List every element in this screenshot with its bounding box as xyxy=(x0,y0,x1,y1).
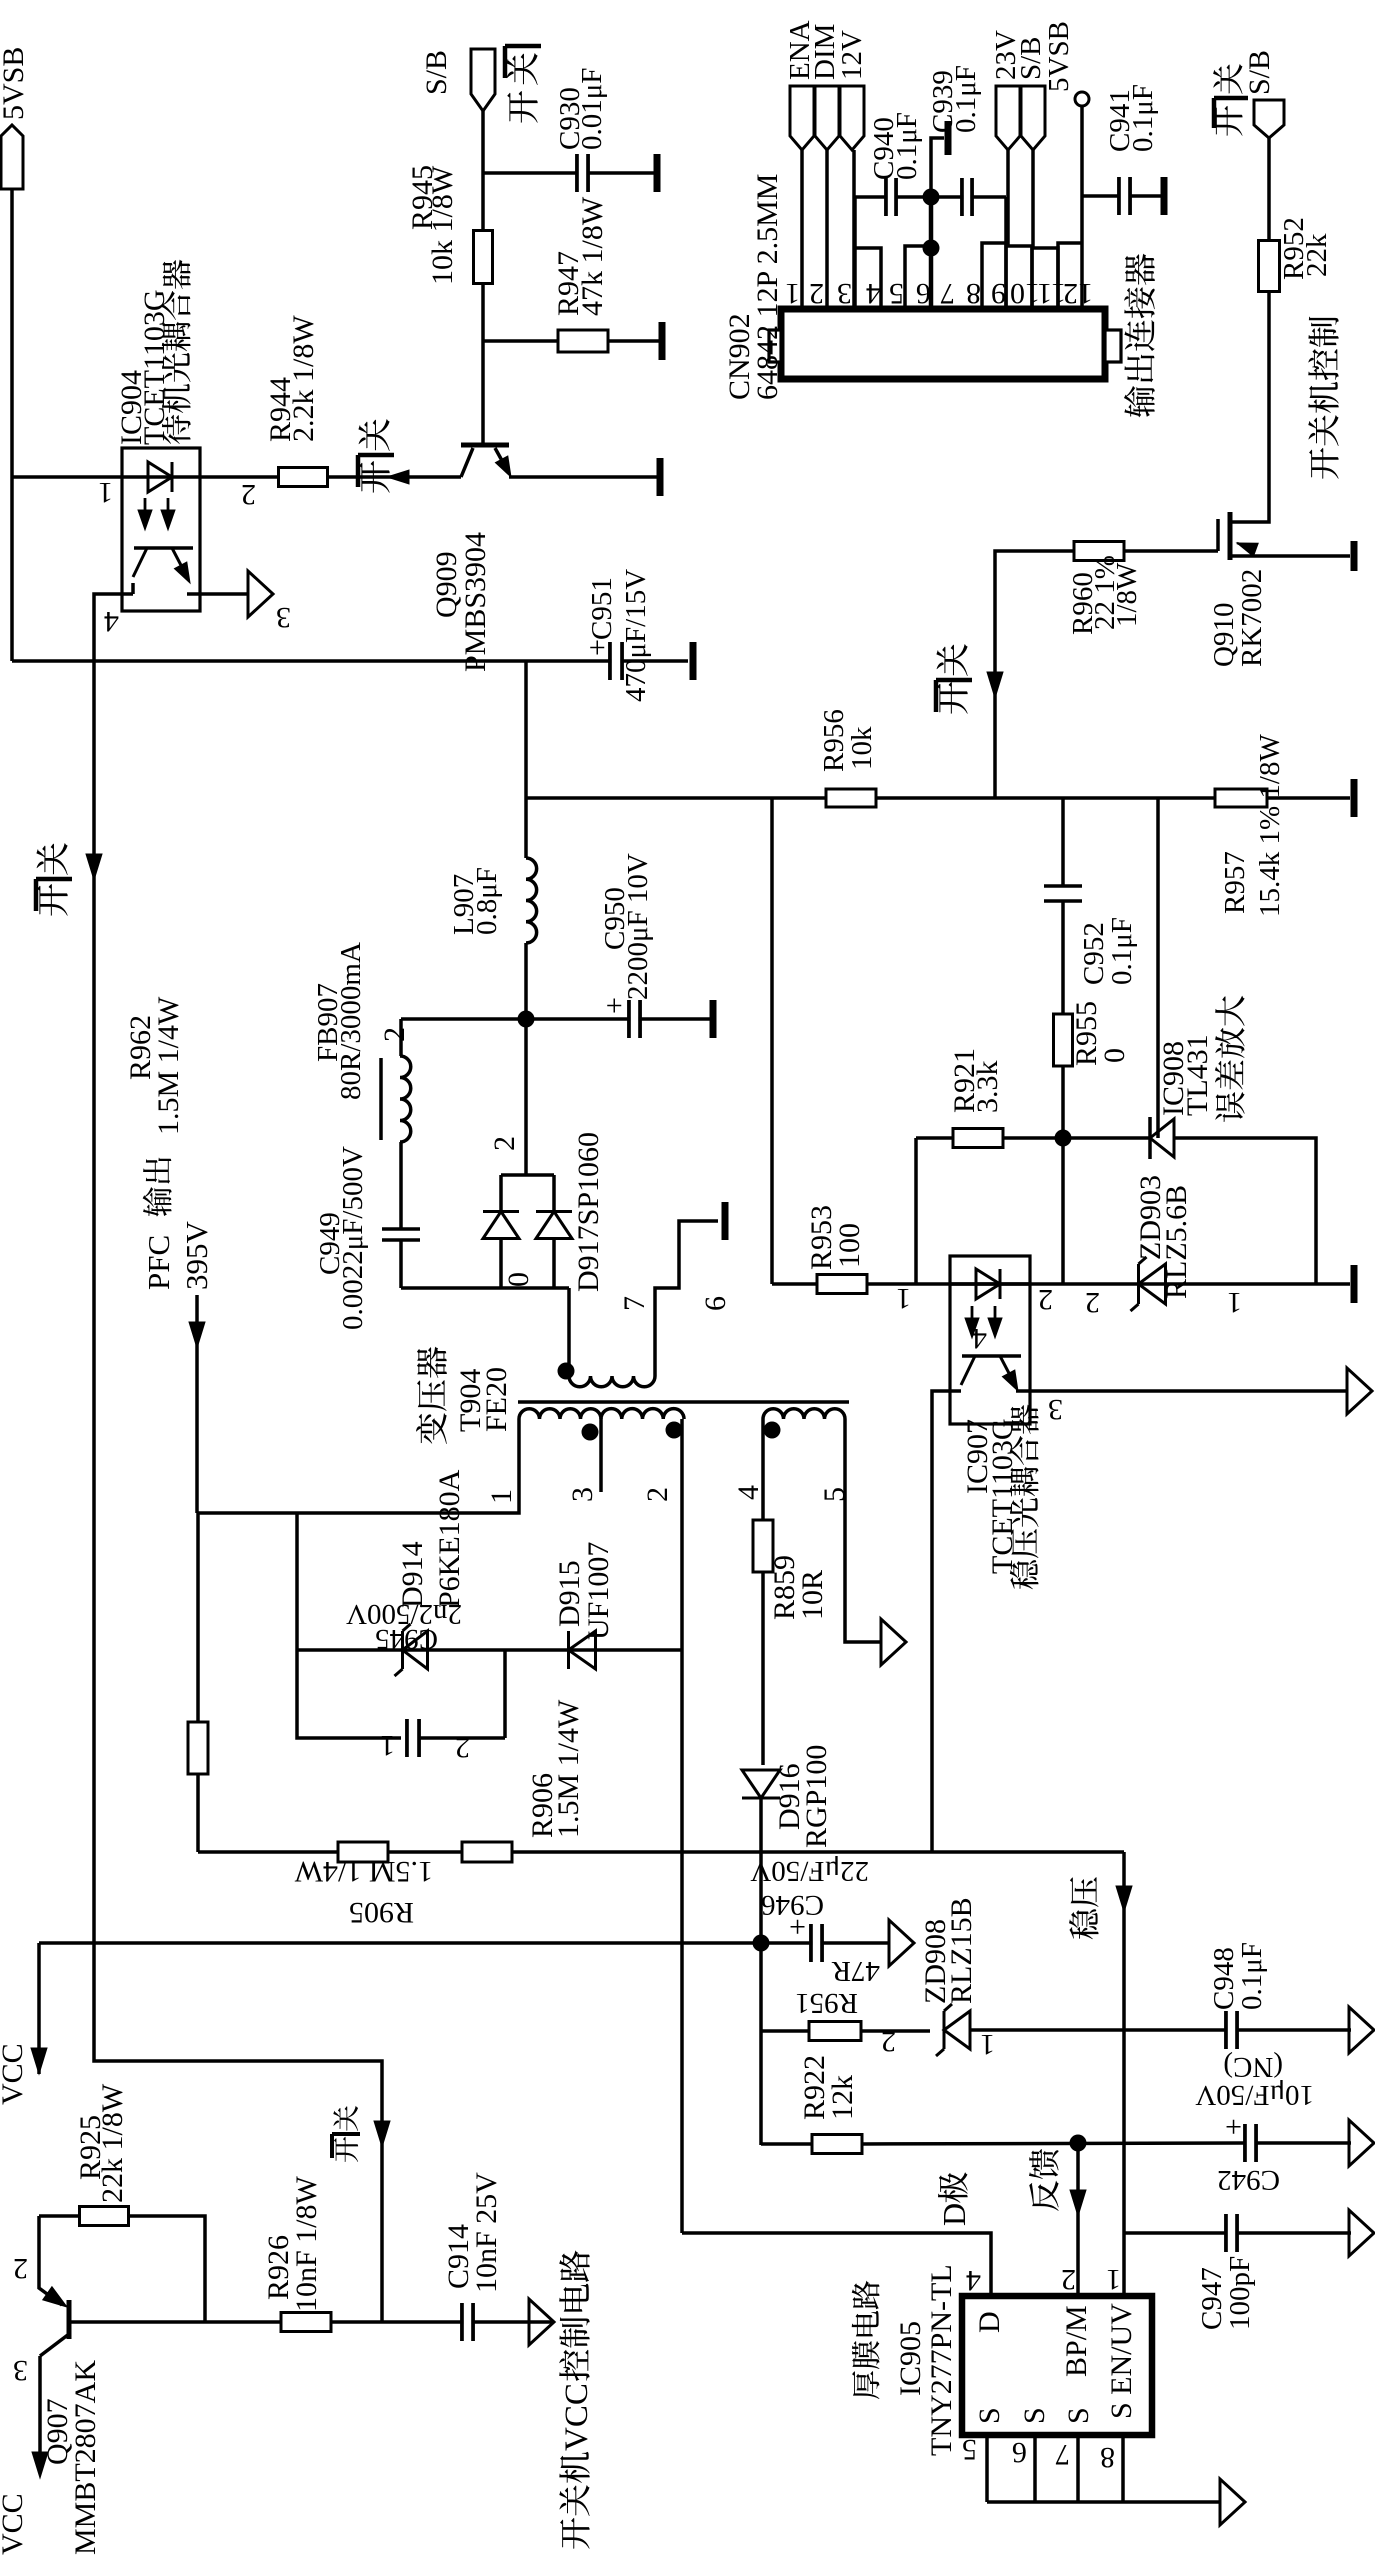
node dot VCC rail xyxy=(753,1935,770,1952)
wire R955 node to rail xyxy=(1061,1138,1065,1284)
wire Q910 drain xyxy=(1230,291,1269,522)
label 稳压 xyxy=(1069,1909,1099,1939)
wire TL431 cathode riser xyxy=(1156,798,1160,1138)
wire IC904 pin4 xyxy=(94,594,133,1943)
svg-text:MMBT2807AK: MMBT2807AK xyxy=(69,2360,102,2555)
svg-text:1.5M 1/4W: 1.5M 1/4W xyxy=(294,1855,433,1888)
ic IC905 TNY277PN-TL box xyxy=(962,2296,1152,2435)
svg-text:VCC: VCC xyxy=(0,2043,29,2105)
diode D914 TVS xyxy=(403,1631,428,1669)
diode D916 xyxy=(742,1770,780,1798)
wire D917 cathode legs xyxy=(499,1175,503,1212)
wire C930 to ground xyxy=(588,171,654,175)
svg-text:TNY277PN-TL: TNY277PN-TL xyxy=(925,2264,958,2456)
svg-text:C951: C951 xyxy=(586,577,618,640)
wire IC904 LED inner xyxy=(122,475,200,479)
transistor Q909 base slant xyxy=(461,448,473,477)
wire output rail to R956 xyxy=(526,796,826,800)
svg-text:1: 1 xyxy=(896,1282,911,1315)
svg-text:2: 2 xyxy=(809,277,824,310)
svg-text:12k: 12k xyxy=(826,2075,859,2120)
pin box CN902 pin10 xyxy=(1006,246,1032,309)
label kaiguan C930 xyxy=(507,91,537,123)
svg-text:C946: C946 xyxy=(761,1889,824,1921)
sheet arrow C948 xyxy=(1349,2007,1374,2053)
wire PFC to R962 xyxy=(196,1513,200,1722)
wire IC905 pin4 D xyxy=(682,2233,991,2296)
svg-text:2: 2 xyxy=(488,1136,521,1151)
net flag 23V xyxy=(996,86,1020,150)
svg-text:395V: 395V xyxy=(179,1221,214,1291)
svg-text:0.1μF: 0.1μF xyxy=(1236,1942,1268,2010)
zener ZD908 xyxy=(944,2011,970,2049)
wire output node row xyxy=(401,1017,716,1021)
wire C942 to arrow xyxy=(1256,2141,1351,2145)
svg-text:3: 3 xyxy=(566,1487,599,1502)
svg-text:22k: 22k xyxy=(1301,233,1333,277)
svg-text:TCET1103G: TCET1103G xyxy=(986,1418,1019,1574)
wire TL431 anode xyxy=(1174,1138,1316,1284)
wire Q909 collector to S/B xyxy=(481,111,485,445)
wire D917 anode rail xyxy=(401,1286,569,1290)
svg-text:1: 1 xyxy=(980,2028,995,2061)
svg-text:RLZ5.6B: RLZ5.6B xyxy=(1160,1185,1193,1299)
label kaiguan S/B xyxy=(1214,106,1243,136)
svg-text:7: 7 xyxy=(940,277,955,310)
wire snubber riser xyxy=(295,1513,299,1650)
svg-text:4: 4 xyxy=(104,605,119,638)
capacitor C941 xyxy=(1117,177,1121,215)
svg-text:15.4k 1% 1/8W: 15.4k 1% 1/8W xyxy=(1254,734,1286,917)
polarity dot T904 primary xyxy=(582,1424,599,1441)
wire T904 pin6 xyxy=(655,1221,718,1376)
svg-text:RK7002: RK7002 xyxy=(1236,569,1268,667)
wire IC907 LED inner xyxy=(950,1282,1030,1286)
capacitor C914 xyxy=(460,2303,464,2341)
svg-text:VCC: VCC xyxy=(0,2493,29,2555)
svg-text:6: 6 xyxy=(1012,2436,1027,2469)
wire R951 to ZD908 xyxy=(861,2029,930,2033)
wire C949 to D917 anode rail xyxy=(399,1240,403,1288)
label 开关机VCC控制电路 xyxy=(560,2518,590,2549)
sheet arrow VCC rail xyxy=(889,1920,914,1966)
wire pin4 to cap line xyxy=(853,197,857,248)
wire IC904 pin2 to R944 xyxy=(200,475,279,479)
wire D916 to VCC rail xyxy=(759,1798,763,1943)
sheet arrow VCC control xyxy=(529,2299,554,2345)
opto IC904 LED xyxy=(148,462,172,492)
wire D917 cathode bar xyxy=(501,1173,554,1177)
label kaiguan R926 xyxy=(334,2137,358,2162)
arrow kaiguan R926 xyxy=(374,2121,390,2147)
ground T904 pin6 xyxy=(722,1202,729,1240)
svg-text:D: D xyxy=(936,2203,972,2226)
svg-text:10k: 10k xyxy=(846,726,878,770)
svg-text:+: + xyxy=(581,639,614,656)
label 输出连接器 xyxy=(1124,386,1155,417)
net flag S/B (Q909) xyxy=(471,49,495,111)
wire D917 cathode riser xyxy=(524,1019,528,1175)
svg-text:2n2/500V: 2n2/500V xyxy=(346,1598,462,1630)
sheet arrow C942 xyxy=(1349,2120,1374,2166)
svg-text:5VSB: 5VSB xyxy=(0,47,30,120)
svg-text:2: 2 xyxy=(881,2025,896,2058)
node dot pin7 xyxy=(923,240,940,257)
wire R947 to ground xyxy=(608,339,659,343)
svg-text:BP/M: BP/M xyxy=(1060,2305,1093,2377)
polarity dot T904 pin4 xyxy=(764,1422,781,1439)
svg-text:+: + xyxy=(1225,2110,1242,2143)
resistor R953 xyxy=(817,1275,867,1294)
svg-text:D917SP1060: D917SP1060 xyxy=(572,1132,605,1292)
svg-text:5VSB: 5VSB xyxy=(1043,21,1075,92)
wire R962 to corner xyxy=(196,1774,200,1852)
svg-text:10: 10 xyxy=(1010,277,1040,310)
wire R922 to C942 xyxy=(862,2143,1245,2144)
svg-text:10k 1/8W: 10k 1/8W xyxy=(426,165,459,285)
label 反馈 xyxy=(1029,2181,1058,2211)
svg-text:7: 7 xyxy=(1055,2438,1070,2471)
capacitor C952 xyxy=(1044,888,1082,900)
ic IC904 box xyxy=(122,448,200,611)
svg-text:0.0022μF/500V: 0.0022μF/500V xyxy=(337,1146,369,1330)
resistor R955 xyxy=(1054,1014,1073,1066)
wire R952 to S/B xyxy=(1267,138,1271,240)
transformer T904 primary winding 3-2 xyxy=(601,1409,684,1419)
ground rail798 xyxy=(1351,779,1358,817)
svg-text:8: 8 xyxy=(1100,2441,1115,2474)
svg-text:5: 5 xyxy=(818,1487,851,1502)
label kaiguan R956 xyxy=(937,682,967,714)
sheet arrow IC907 pin3 xyxy=(1347,1368,1372,1414)
wire Q907 base line xyxy=(69,2320,554,2324)
wire C952 branch xyxy=(1061,798,1065,886)
svg-text:10nF 25V: 10nF 25V xyxy=(470,2172,503,2293)
wire rail1284 xyxy=(772,1282,1350,1286)
wire C945 loop xyxy=(297,1650,401,1738)
wire C930 branch xyxy=(483,171,577,175)
transistor Q909 base bar xyxy=(461,443,509,448)
wire C948 to arrow xyxy=(1237,2028,1351,2032)
svg-text:47R: 47R xyxy=(831,1955,880,1987)
svg-text:PFC: PFC xyxy=(141,1235,176,1290)
capacitor C948 xyxy=(1224,2011,1228,2049)
capacitor C939 xyxy=(960,178,964,216)
capacitor C950 + xyxy=(627,1000,631,1038)
wire C947 to arrow xyxy=(1237,2231,1351,2235)
wire R951 R922 riser xyxy=(759,1943,763,2145)
wire Q910 source xyxy=(1230,554,1350,558)
svg-text:FE20: FE20 xyxy=(480,1367,513,1432)
pin box CN902 pin11 xyxy=(1032,248,1058,309)
svg-text:6: 6 xyxy=(916,277,931,310)
wire R951 line xyxy=(761,2029,808,2033)
svg-text:80R/3000mA: 80R/3000mA xyxy=(335,942,367,1100)
wire ZD908 to C948 xyxy=(970,2028,1226,2032)
net arrow VCC xyxy=(37,1943,41,2074)
diode D917 right half xyxy=(536,1212,572,1239)
svg-text:1.5M 1/4W: 1.5M 1/4W xyxy=(552,1699,585,1838)
connector CN902 body xyxy=(781,309,1105,379)
sheet arrow IC905 source xyxy=(1220,2479,1245,2525)
resistor R944 xyxy=(279,468,328,487)
svg-text:3.3k: 3.3k xyxy=(971,1061,1004,1114)
resistor R945 xyxy=(474,231,493,284)
svg-text:0.1μF: 0.1μF xyxy=(891,112,923,180)
pin box CN902 pin4 xyxy=(855,248,881,309)
svg-text:1/8W: 1/8W xyxy=(1111,562,1143,627)
wire CN902 pin7 bold xyxy=(929,197,934,309)
wire CN902 pin3 xyxy=(852,150,856,309)
wire C941 to ground xyxy=(1130,194,1161,198)
net flag S/B(23V) xyxy=(1021,86,1045,150)
svg-text:12: 12 xyxy=(1063,277,1093,310)
wire IC907 pin3 xyxy=(1016,1389,1348,1393)
wire R960 to gate xyxy=(1124,549,1218,553)
svg-text:2: 2 xyxy=(241,478,256,511)
svg-text:12V: 12V xyxy=(836,30,868,80)
wire CN902 pin1 xyxy=(800,150,804,309)
svg-text:S: S xyxy=(1062,2407,1095,2424)
svg-text:2.2k 1/8W: 2.2k 1/8W xyxy=(287,315,320,442)
wire R925 left xyxy=(39,2214,80,2218)
net flag S/B (Q910) xyxy=(1254,100,1284,138)
svg-text:P6KE180A: P6KE180A xyxy=(433,1469,466,1608)
wire L907 branch xyxy=(524,661,528,858)
svg-text:5: 5 xyxy=(962,2433,977,2466)
resistor R962 xyxy=(188,1722,208,1774)
svg-text:S/B: S/B xyxy=(1243,50,1276,95)
svg-text:2: 2 xyxy=(641,1487,674,1502)
transistor Q907 emitter arrow xyxy=(43,2287,67,2307)
ground CN902 xyxy=(945,121,952,155)
node dot BP xyxy=(1070,2135,1087,2152)
svg-text:D914: D914 xyxy=(396,1541,429,1608)
wire C941 line xyxy=(1082,194,1119,198)
ic TL431 IC908 xyxy=(1148,1117,1152,1159)
transformer T904 primary winding 1-3 xyxy=(519,1409,601,1419)
svg-text:1.5M 1/4W: 1.5M 1/4W xyxy=(152,996,185,1135)
wire cap line C940 C939 xyxy=(855,195,886,199)
arrow Q910 source xyxy=(1237,543,1253,549)
label 误差放大 xyxy=(1215,1092,1244,1122)
ground rail1284 xyxy=(1351,1265,1358,1303)
arrow wenya xyxy=(1116,1886,1132,1912)
wire D917 anode legs xyxy=(499,1239,503,1288)
svg-text:2: 2 xyxy=(1038,1283,1053,1316)
transistor Q909 emitter slant xyxy=(495,448,505,466)
resistor R960 xyxy=(1074,542,1124,561)
opto IC904 transistor xyxy=(134,546,193,550)
svg-text:R951: R951 xyxy=(795,1987,858,2019)
wire R947 branch xyxy=(483,339,558,343)
resistor R951 xyxy=(809,2022,861,2041)
label 变压器 xyxy=(416,1413,447,1444)
ground C941 xyxy=(1161,177,1168,215)
pin box CN902 pin5-6 xyxy=(905,246,931,309)
resistor R859 xyxy=(753,1520,773,1572)
svg-text:S: S xyxy=(973,2407,1006,2424)
net flag 5VSB xyxy=(1,125,23,189)
net flag DIM xyxy=(815,86,839,150)
resistor R925 xyxy=(80,2207,129,2226)
svg-text:6: 6 xyxy=(699,1296,732,1311)
svg-text:3: 3 xyxy=(276,601,291,634)
sheet arrow pin5 xyxy=(881,1619,906,1665)
svg-text:4: 4 xyxy=(966,2264,981,2297)
wire T904 pin7 riser xyxy=(567,1288,571,1376)
wire 5VSB down to C951 rail xyxy=(10,189,14,661)
svg-text:47k 1/8W: 47k 1/8W xyxy=(576,196,609,316)
arrow feedback xyxy=(1070,2190,1086,2216)
svg-text:10R: 10R xyxy=(796,1570,829,1620)
node 5VSB circle xyxy=(1075,92,1089,106)
svg-text:22μF/50V: 22μF/50V xyxy=(750,1855,869,1887)
resistor R905 xyxy=(338,1842,388,1862)
zener ZD903 xyxy=(1139,1264,1166,1304)
svg-text:3: 3 xyxy=(13,2354,28,2387)
wire IC905 pin1 EN xyxy=(1122,1852,1126,2296)
svg-text:(NC): (NC) xyxy=(1223,2051,1283,2083)
svg-text:2: 2 xyxy=(1085,1286,1100,1319)
capacitor C947 xyxy=(1224,2214,1228,2252)
wire T904 pin5 xyxy=(845,1419,881,1642)
connector CN902 right tab xyxy=(1105,330,1121,362)
wire R957 to ground xyxy=(1267,796,1350,800)
svg-text:UF1007: UF1007 xyxy=(582,1542,615,1640)
opto IC907 light arrows xyxy=(965,1318,979,1338)
node dot cap line xyxy=(923,189,940,206)
wire IC905 source pins xyxy=(985,2435,989,2502)
svg-text:3: 3 xyxy=(837,277,852,310)
resistor R926 xyxy=(281,2313,331,2332)
svg-text:1: 1 xyxy=(485,1489,518,1504)
resistor R921 xyxy=(953,1129,1003,1148)
wire Q909 emitter xyxy=(509,475,657,479)
ferrite bead FB907 xyxy=(400,1056,411,1142)
net flag 12V xyxy=(840,86,864,150)
svg-text:10nF 1/8W: 10nF 1/8W xyxy=(290,2175,323,2312)
svg-text:IC905: IC905 xyxy=(894,2321,927,2396)
wire 5VSB to pin12 xyxy=(1080,106,1084,309)
svg-text:1: 1 xyxy=(1227,1286,1242,1319)
wire FB907 branch xyxy=(399,1019,403,1056)
svg-text:64842 12P 2.5MM: 64842 12P 2.5MM xyxy=(751,174,784,400)
net flag ENA xyxy=(790,86,814,150)
wire C951 rail (to ground) xyxy=(12,659,688,663)
wire T904 pin4 to R859 xyxy=(761,1419,765,1522)
svg-text:9: 9 xyxy=(991,277,1006,310)
mosfet Q910 gate bar xyxy=(1216,519,1220,551)
wire L907 to node xyxy=(524,943,528,1019)
capacitor C940 xyxy=(884,178,888,216)
svg-text:RLZ15B: RLZ15B xyxy=(945,1897,978,2004)
wire kaiguan drop xyxy=(94,1943,382,2322)
wire R922 line xyxy=(761,2142,812,2146)
svg-text:VCC: VCC xyxy=(559,2383,595,2451)
svg-text:2: 2 xyxy=(1061,2263,1076,2296)
svg-text:0.1μF: 0.1μF xyxy=(950,65,982,133)
wire R921 riser xyxy=(914,1138,918,1284)
label 开关机控制 xyxy=(1309,448,1339,479)
diode D917 left half xyxy=(483,1212,519,1239)
wire C947 line xyxy=(1124,2231,1226,2235)
ground R947 xyxy=(659,322,666,360)
wire FB907 to C949 xyxy=(399,1142,403,1229)
wire IC904 pin3 to arrow xyxy=(187,592,249,596)
pin box CN902 pin12 xyxy=(1058,243,1082,309)
svg-text:470μF/15V: 470μF/15V xyxy=(620,569,652,702)
svg-text:7: 7 xyxy=(618,1296,651,1311)
sheet arrow IC904 pin3 xyxy=(248,571,273,617)
capacitor C942 + xyxy=(1243,2124,1247,2162)
resistor R952 xyxy=(1259,241,1280,292)
svg-text:8: 8 xyxy=(966,277,981,310)
svg-text:22k 1/8W: 22k 1/8W xyxy=(96,2083,129,2203)
svg-text:1: 1 xyxy=(380,1729,395,1762)
svg-text:4: 4 xyxy=(972,1322,987,1355)
svg-text:2: 2 xyxy=(455,1731,470,1764)
capacitor C949 xyxy=(382,1231,420,1239)
wire IC904 pin4 inner xyxy=(131,583,135,594)
svg-text:4: 4 xyxy=(866,277,881,310)
wire kaiguan Q910 branch xyxy=(995,551,1074,798)
capacitor C930 xyxy=(575,154,579,192)
wire 5VSB to IC904 pin1 xyxy=(12,475,122,479)
svg-text:RGP100: RGP100 xyxy=(800,1745,833,1848)
svg-text:100pF: 100pF xyxy=(1224,2256,1256,2330)
svg-text:0.1μF: 0.1μF xyxy=(1106,917,1138,985)
svg-text:S: S xyxy=(1018,2407,1051,2424)
wire R859 to D916 xyxy=(761,1571,765,1765)
resistor R922 xyxy=(812,2135,862,2154)
svg-text:TL431: TL431 xyxy=(1181,1034,1214,1116)
transformer T904 winding 7-6 xyxy=(569,1376,655,1387)
net arrow PFC output xyxy=(195,1295,199,1513)
svg-text:2200μF 10V: 2200μF 10V xyxy=(622,853,654,1000)
resistor R957 xyxy=(1215,789,1267,807)
wire C945 right xyxy=(419,1736,505,1740)
resistor R947 xyxy=(558,330,608,352)
ground Q909 emitter xyxy=(657,458,664,496)
wire D914 D915 line xyxy=(297,1648,682,1652)
node dot output xyxy=(518,1011,535,1028)
svg-text:1: 1 xyxy=(785,277,800,310)
connector CN902 left tab xyxy=(769,330,781,362)
svg-text:0.1μF: 0.1μF xyxy=(1127,84,1159,152)
wire Q907 emitter riser xyxy=(39,2216,62,2305)
wire R905 R906 line xyxy=(198,1850,1124,1854)
transistor Q907 collector xyxy=(40,2334,69,2356)
svg-text:100: 100 xyxy=(833,1223,866,1268)
wire pin7 ground xyxy=(931,138,944,197)
wire rail798-rail1284 link xyxy=(770,798,774,1284)
wire R921 to TL431 xyxy=(1003,1136,1150,1140)
svg-text:2: 2 xyxy=(378,1027,411,1042)
label 厚膜电路 xyxy=(852,2371,879,2399)
svg-text:S EN/UV: S EN/UV xyxy=(1105,2303,1138,2419)
mosfet Q910 channel bar xyxy=(1228,512,1233,560)
diode D915 xyxy=(569,1631,596,1669)
label kaiguan Q909 xyxy=(359,461,389,493)
label kaiguan IC904 pin4 xyxy=(37,884,67,916)
wire R944 to Q909 base xyxy=(328,475,461,479)
wire IC907 pin4 xyxy=(932,1391,961,1852)
svg-text:0: 0 xyxy=(1098,1048,1131,1063)
wire VCC rail xyxy=(39,1941,889,1945)
opto IC907 transistor xyxy=(962,1354,1021,1358)
resistor R906 xyxy=(462,1842,512,1862)
